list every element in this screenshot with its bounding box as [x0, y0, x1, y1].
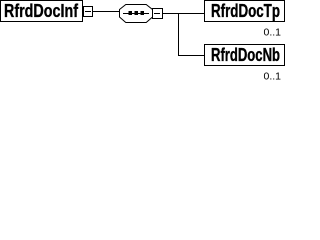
expand handle (minus box) of RfrdDocInf [84, 7, 93, 17]
wire stub to RfrdDocTp [178, 13, 204, 15]
element box RfrdDocTp [205, 1, 285, 22]
sequence dot 2 [135, 11, 139, 15]
svg-text:RfrdDocNb: RfrdDocNb [211, 45, 280, 65]
sequence mid-line [123, 13, 149, 15]
element box RfrdDocNb [205, 45, 285, 66]
sequence dot 1 [129, 11, 133, 15]
wire from sequence handle to branch trunk [163, 13, 178, 15]
svg-text:RfrdDocTp: RfrdDocTp [211, 1, 280, 21]
svg-text:RfrdDocInf: RfrdDocInf [4, 1, 79, 21]
sequence dot 3 [141, 11, 145, 15]
svg-text:0..1: 0..1 [263, 27, 281, 39]
expand handle (minus box) of sequence [153, 9, 163, 19]
sequence compositor symbol (octagon) [120, 5, 153, 23]
element box RfrdDocInf [1, 1, 83, 22]
vertical branch trunk wire [178, 13, 180, 56]
svg-text:0..1: 0..1 [263, 71, 281, 83]
wire from RfrdDocInf handle to sequence symbol [92, 11, 119, 13]
wire stub to RfrdDocNb [178, 55, 204, 57]
